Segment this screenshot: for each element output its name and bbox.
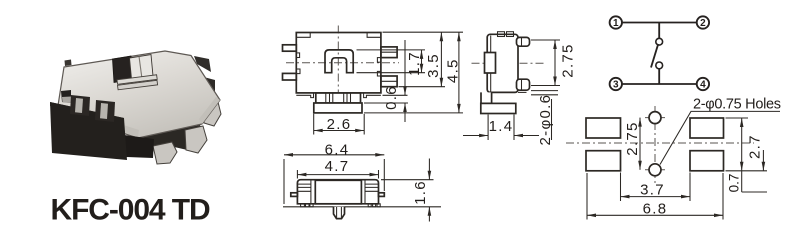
centerline vertical: [654, 106, 656, 183]
terminal far right: [203, 102, 221, 126]
foot neck: [481, 92, 492, 103]
top view: [283, 26, 464, 135]
dim 2.6 line: [314, 130, 365, 132]
dim 2.75 ext lines: [531, 40, 560, 86]
right terminal lower inner line: [381, 80, 397, 82]
left terminal lower: [283, 73, 297, 80]
ext line clip bottom: [357, 72, 426, 74]
svg-text:1.4: 1.4: [489, 118, 514, 135]
centerline horizontal: [566, 142, 754, 144]
dim 0.6 line: [404, 40, 406, 122]
left corner tab: [61, 90, 71, 103]
top-right cover tab: [367, 33, 381, 38]
svg-text:3.7: 3.7: [640, 181, 665, 198]
stem inner lines: [337, 207, 342, 218]
left terminal upper: [283, 45, 297, 51]
ext line lip: [383, 94, 408, 96]
top-left cover tab: [296, 33, 310, 38]
svg-text:4.7: 4.7: [325, 158, 350, 175]
phi label underline: [551, 99, 553, 140]
product photo: SMD tactile switch illustration: [50, 51, 221, 164]
dim 1.6 line: [428, 159, 430, 222]
dim 4.7 line: [297, 174, 378, 176]
circuit schematic: [610, 16, 710, 90]
holes leader line: [660, 111, 780, 164]
dim 6.4 line: [284, 154, 384, 156]
svg-text:2: 2: [700, 18, 706, 29]
hole bottom: [649, 164, 661, 176]
pin 3 circle: [610, 78, 622, 90]
contact upper: [656, 38, 663, 45]
left block rib lines: [297, 184, 311, 191]
feet right: [368, 204, 371, 207]
dim 3.7 ext lines: [621, 173, 691, 202]
dim 6.8 line: [587, 214, 723, 216]
side button: [485, 53, 496, 74]
dim 2.75 line: [639, 118, 641, 170]
pin 4 circle: [697, 78, 709, 90]
svg-text:6.8: 6.8: [643, 200, 668, 217]
pad bottom-left: [586, 151, 621, 171]
terminal upper inner line: [521, 37, 523, 46]
left terminal tab: [291, 193, 298, 197]
dim 4.7 ext lines: [297, 170, 378, 179]
dim 1.4 line: [463, 135, 539, 137]
dark wedge under cover: [133, 125, 204, 149]
svg-text:2.7: 2.7: [746, 134, 763, 159]
locating stem: [334, 207, 345, 219]
terminal lower inner line: [521, 79, 523, 90]
svg-text:1.6: 1.6: [412, 180, 429, 205]
pad bottom-right: [690, 151, 724, 171]
svg-text:KFC-004 TD: KFC-004 TD: [51, 194, 210, 227]
block bump 1 slot: [75, 98, 83, 113]
wire stub to bottom rail: [658, 69, 660, 84]
cover top edge small tab: [65, 60, 72, 67]
right bump upper: [377, 58, 381, 63]
svg-text:2-φ0.6: 2-φ0.6: [537, 94, 554, 146]
right terminal lower: [381, 76, 397, 87]
right bump lower: [377, 71, 381, 76]
left bump lower: [296, 69, 300, 74]
right terminal upper: [381, 47, 397, 58]
left bump upper: [296, 53, 299, 58]
svg-text:4.5: 4.5: [445, 58, 462, 83]
body bottom edge right stub: [518, 91, 527, 93]
ext line terminal bottom: [399, 86, 446, 88]
front view: [283, 141, 441, 221]
feet left: [301, 204, 305, 207]
base right corner post: [196, 75, 215, 104]
button bracket dark: [113, 56, 133, 83]
top tab left: [498, 32, 505, 37]
block bump 2 slot: [100, 103, 108, 119]
body outline: [297, 180, 378, 204]
dim 2.7 line: [741, 118, 743, 192]
stem ribbed block: [316, 93, 361, 103]
svg-text:1: 1: [613, 18, 619, 29]
ext line plate bottom: [364, 112, 463, 114]
switch blade: [651, 44, 658, 68]
dark backdrop behind right terminals: [168, 126, 205, 152]
right terminal upper inner line: [381, 51, 397, 53]
pad top-right: [690, 118, 724, 138]
dim 6.8 ext lines: [587, 173, 723, 220]
svg-text:2.75: 2.75: [624, 121, 641, 155]
phi ref lines: [531, 91, 558, 95]
terminal bottom right: [185, 126, 207, 153]
block bump 1: [70, 95, 90, 116]
right block rib lines: [365, 184, 379, 191]
bottom lip left: [296, 93, 313, 98]
svg-text:0.7: 0.7: [727, 174, 742, 193]
centerline horizontal: [472, 62, 546, 64]
base top-right corner post: [194, 56, 211, 72]
left corner tab metal face: [62, 97, 71, 104]
right terminal tab: [379, 193, 385, 197]
svg-text:2.75: 2.75: [559, 43, 576, 77]
dim 2.6 ext lines: [314, 114, 365, 135]
base block top face: [50, 102, 124, 122]
svg-text:0.6: 0.6: [383, 85, 400, 110]
terminal lower: [517, 79, 530, 90]
dim 3.5 line: [440, 32, 442, 86]
svg-text:6.4: 6.4: [325, 141, 350, 158]
side view: [463, 32, 576, 146]
dim 0.7 ext line: [742, 191, 767, 193]
base block shadow keel: [124, 135, 154, 158]
body outline: [487, 34, 518, 92]
centerline horizontal: [286, 62, 399, 64]
left block right edge: [310, 180, 312, 204]
ext line clip top: [357, 49, 426, 51]
svg-text:3.5: 3.5: [425, 53, 442, 78]
dim 1.7 line: [421, 50, 423, 73]
pad top-left: [586, 118, 621, 138]
cover clip (staple shape): [325, 50, 353, 73]
pin numbers: [613, 18, 706, 90]
bottom rail wire: [622, 83, 697, 85]
dim 3.7 line: [621, 196, 691, 198]
circuit schematic: [0, 0, 1, 1]
button metal tab inner edge: [139, 56, 142, 77]
stem plate: [314, 103, 362, 113]
button metal tab: [130, 55, 154, 80]
spring finger upper: [117, 75, 157, 85]
pcb land pattern: [566, 97, 781, 220]
metal cover top face: [57, 51, 220, 138]
svg-text:2.6: 2.6: [327, 116, 352, 133]
body outline: [296, 33, 381, 93]
spring finger lower: [118, 80, 158, 90]
ext line body top right: [383, 31, 464, 33]
inner cover edge: [490, 36, 492, 92]
right block left edge: [364, 180, 366, 204]
dim 6.4 ext lines: [284, 159, 384, 204]
dim 1.6 ext line: [381, 179, 434, 181]
pin 2 circle: [697, 16, 709, 28]
block bump 2: [95, 100, 115, 122]
centerline vertical: [337, 26, 339, 117]
top rail wire: [622, 22, 697, 24]
bottom lip right: [364, 93, 381, 98]
terminal upper: [517, 37, 530, 46]
wire stub from top rail: [658, 23, 660, 39]
pin 1 circle: [610, 16, 622, 28]
terminal bottom center: [153, 142, 177, 164]
cover right bevel: [199, 97, 220, 124]
hole top: [649, 112, 661, 124]
contact lower: [656, 62, 663, 69]
pcb line: [283, 206, 441, 208]
svg-text:3: 3: [613, 79, 619, 90]
cover bottom bevel: [60, 106, 139, 137]
svg-text:2-φ0.75 Holes: 2-φ0.75 Holes: [693, 97, 781, 113]
center cover face: [315, 180, 361, 204]
svg-text:1.7: 1.7: [406, 51, 423, 76]
dim 1.4 ext lines: [488, 115, 514, 141]
stem rib lines: [326, 93, 351, 103]
dim 2.7 ext lines: [726, 118, 768, 171]
top tab right: [507, 32, 514, 37]
dim 2.75 line: [554, 40, 556, 86]
hole cross ticks: [645, 118, 665, 170]
dim 0.7 line: [762, 150, 764, 171]
foot bar: [481, 103, 516, 113]
base block front face: [50, 102, 127, 160]
svg-text:4: 4: [700, 79, 706, 90]
ext line plate top: [364, 102, 408, 104]
dim 4.5 line: [458, 32, 460, 113]
